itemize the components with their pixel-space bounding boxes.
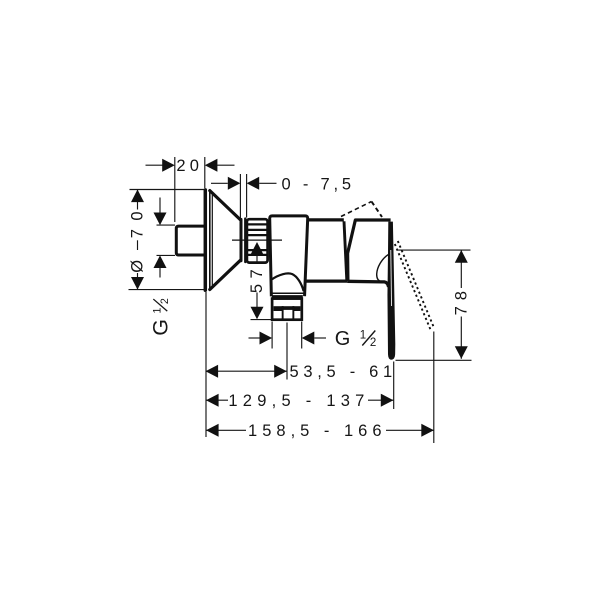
middle body section: [305, 220, 347, 281]
extension top: [130, 189, 206, 191]
label 158,5 - 166: [246, 421, 386, 439]
valve body cartridge: [270, 216, 308, 297]
extension line right: [204, 157, 206, 188]
cap inner curve: [377, 254, 389, 281]
svg-text:Ø 70: Ø 70: [129, 203, 147, 273]
wall face thick line: [204, 190, 208, 290]
svg-text:78: 78: [452, 285, 470, 315]
svg-text:20: 20: [176, 157, 203, 175]
dimension 53,5 - 61: [206, 370, 287, 372]
outlet bottom extension: [251, 319, 272, 321]
cone bottom slant: [210, 260, 241, 289]
extension bottom: [129, 289, 206, 291]
wall extension line: [205, 292, 207, 437]
dimension 57: [251, 255, 272, 320]
svg-text:G: G: [149, 319, 173, 336]
dimension G 1/2 bottom (outlet thread): [249, 322, 327, 349]
flange thin line: [271, 292, 303, 294]
dimension 129,5 - 137: [206, 399, 393, 401]
dimension dia 70: [129, 190, 206, 290]
inner arc: [272, 273, 304, 291]
svg-text:G: G: [335, 328, 351, 350]
svg-text:158,5 - 166: 158,5 - 166: [248, 422, 386, 440]
dimension G 1/2 left (nipple thread): [157, 198, 176, 278]
dim line segments: [137, 190, 139, 210]
dashed handle open position top: [341, 202, 382, 218]
cone right face: [240, 219, 243, 260]
outlet center extension line: [286, 323, 288, 380]
dashed lever tip extension line: [433, 332, 435, 444]
outlet nut G1/2: [272, 299, 302, 320]
dimension 20: [146, 157, 235, 222]
centerline: [232, 239, 282, 241]
joint line: [344, 221, 347, 280]
lever edge extension line: [393, 362, 395, 410]
label G 1/2 left: [149, 319, 173, 336]
handle cap: [347, 220, 390, 287]
svg-text:0 - 7,5: 0 - 7,5: [282, 176, 355, 194]
flange thick washer: [272, 295, 303, 299]
extension line left: [174, 157, 176, 222]
lever blade: [387, 222, 395, 360]
extension bottom: [396, 359, 472, 361]
escutcheon wall flange: [205, 190, 245, 290]
svg-text:129,5 - 137: 129,5 - 137: [228, 392, 369, 410]
dashed lever open position: [395, 241, 435, 332]
svg-text:57: 57: [248, 264, 266, 293]
supply nipple: [176, 226, 205, 255]
extension top: [397, 249, 471, 251]
rim line: [244, 219, 246, 262]
dimension 158,5 - 166: [206, 429, 434, 431]
inner thin line 2: [211, 192, 213, 288]
dimension 0 - 7,5: [211, 174, 277, 219]
union nut knurled: [247, 219, 268, 262]
cone top slant: [210, 191, 241, 220]
dimension 78: [396, 250, 472, 360]
tails: [146, 164, 164, 166]
label 129,5 - 137: [228, 391, 368, 409]
cap bottom edge: [347, 281, 388, 287]
svg-text:53,5 - 61: 53,5 - 61: [290, 363, 397, 381]
inner thin line 1: [209, 191, 211, 289]
